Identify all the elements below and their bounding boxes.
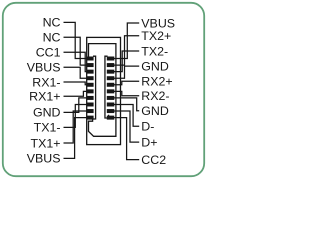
- wire GND (left pin 7): [64, 98, 89, 112]
- svg-text:RX2+: RX2+: [141, 75, 172, 89]
- svg-text:TX2+: TX2+: [141, 29, 171, 43]
- wire CC1 (left pin 3): [64, 52, 89, 71]
- wire TX2+ (right pin 2): [114, 36, 139, 65]
- svg-text:CC1: CC1: [36, 46, 61, 60]
- svg-text:CC2: CC2: [141, 153, 166, 167]
- wire CC2 (right pin 10): [114, 118, 139, 160]
- svg-text:VBUS: VBUS: [27, 152, 61, 166]
- wire NC (left pin 1): [64, 22, 89, 58]
- wire GND (right pin 4): [114, 66, 139, 78]
- svg-text:RX1+: RX1+: [29, 90, 60, 104]
- wire D- (right pin 8): [114, 104, 139, 126]
- wire NC (left pin 2): [64, 37, 89, 65]
- svg-text:GND: GND: [141, 59, 169, 73]
- svg-text:D-: D-: [141, 120, 154, 134]
- svg-text:TX2-: TX2-: [141, 44, 168, 58]
- wire RX2- (right pin 6): [114, 91, 139, 95]
- left pin column (pins 1-10): [87, 57, 94, 120]
- svg-text:TX1-: TX1-: [34, 121, 61, 135]
- wire VBUS (right pin 1): [114, 23, 139, 59]
- wire GND (right pin 7): [114, 98, 139, 111]
- svg-text:NC: NC: [43, 16, 61, 30]
- svg-text:D+: D+: [141, 135, 157, 149]
- svg-text:NC: NC: [43, 31, 61, 45]
- svg-text:GND: GND: [33, 106, 61, 120]
- wire RX1+ (left pin 6): [64, 91, 89, 96]
- wire VBUS (left pin 4): [64, 67, 89, 78]
- wire RX1- (left pin 5): [64, 82, 89, 85]
- wire VBUS (left pin 10): [64, 118, 89, 159]
- wire D+ (right pin 9): [114, 111, 139, 142]
- svg-text:RX2-: RX2-: [141, 89, 169, 103]
- connector inner cavity outline (keyed, chamfered bottom-left): [89, 44, 116, 137]
- connector tongue right wall: [105, 56, 109, 118]
- connector tongue left wall: [93, 56, 96, 119]
- connector U31G2 outer shell: [87, 37, 121, 144]
- wire RX2+ (right pin 5): [114, 81, 139, 84]
- svg-text:GND: GND: [141, 104, 169, 118]
- wire TX2- (right pin 3): [114, 51, 139, 72]
- svg-text:VBUS: VBUS: [27, 61, 61, 75]
- green rounded frame: [3, 3, 204, 176]
- wire TX1- (left pin 8): [64, 104, 89, 127]
- right pin column (pins 1-10): [107, 57, 115, 120]
- svg-text:RX1-: RX1-: [32, 75, 60, 89]
- wire TX1+ (left pin 9): [64, 111, 89, 143]
- svg-text:TX1+: TX1+: [31, 136, 61, 150]
